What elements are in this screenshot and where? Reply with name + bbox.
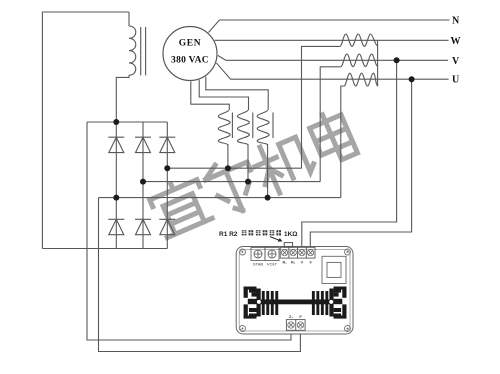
inductor L1 core bbox=[231, 113, 233, 139]
wire transformer top lead bbox=[128, 12, 130, 26]
svg-text:R1 R2: R1 R2 bbox=[219, 231, 238, 238]
diode D4 bbox=[108, 219, 124, 234]
wire gen to N bbox=[209, 20, 450, 33]
wire V sense drop bbox=[302, 60, 397, 247]
node J5 L2 bottom bbox=[245, 179, 251, 185]
svg-text:W: W bbox=[451, 36, 461, 47]
node J2 tap phase rail1 bbox=[164, 165, 170, 171]
wire DC negative to F2 bbox=[99, 198, 301, 352]
inductor L3 bbox=[257, 110, 269, 145]
choke LV on line V bbox=[341, 54, 378, 67]
diode D2 bbox=[135, 137, 151, 152]
heatsink left bbox=[244, 287, 279, 319]
svg-text:R₁: R₁ bbox=[282, 261, 287, 265]
relay box bbox=[322, 256, 346, 283]
bottom terminal block F bbox=[286, 320, 305, 331]
wire rail2 bbox=[143, 181, 320, 183]
wire gen bottom to L3 bbox=[206, 77, 268, 110]
watermark 宜 bbox=[147, 174, 213, 238]
choke LW on line W bbox=[340, 34, 378, 46]
module inner border bbox=[239, 250, 350, 332]
watermark 电 bbox=[307, 108, 358, 166]
node J3 L1 bottom bbox=[225, 165, 231, 171]
wire L1 to rail1 bbox=[227, 144, 229, 168]
wire transformer bottom lead bbox=[116, 75, 129, 122]
wire U sense drop bbox=[310, 79, 411, 247]
heatsink screw holes bbox=[257, 300, 261, 304]
svg-text:STAB: STAB bbox=[253, 262, 263, 267]
node J8 V line tap bbox=[394, 57, 400, 63]
trimmer VOLT bbox=[265, 248, 279, 261]
wire gen to U bbox=[216, 63, 448, 79]
transformer T1 core bbox=[141, 27, 146, 75]
annotation CJK blobs bbox=[242, 230, 281, 235]
wire gen to W bbox=[215, 39, 449, 41]
wire gen to V bbox=[218, 56, 448, 61]
svg-text:GEN: GEN bbox=[179, 39, 201, 49]
svg-text:0: 0 bbox=[309, 261, 311, 265]
diode D1 bbox=[108, 137, 124, 152]
inductor L2 core bbox=[252, 113, 254, 139]
wire LV left tail bbox=[320, 67, 341, 182]
node J4 tap phase rail2 bbox=[140, 179, 146, 185]
wire rail1 bbox=[167, 167, 301, 169]
svg-text:380 VAC: 380 VAC bbox=[171, 56, 209, 66]
wire LW left tail bbox=[302, 46, 340, 168]
wire LU left tail bbox=[341, 86, 344, 198]
heatsink right bbox=[312, 287, 347, 319]
wire bridge column 1 bbox=[115, 122, 117, 249]
trimmer STAB bbox=[251, 248, 265, 261]
wire L3 to rail3 bbox=[267, 144, 269, 198]
svg-text:V: V bbox=[301, 261, 304, 265]
pot bracket box over R1 R2 bbox=[284, 243, 292, 247]
node J6 tap phase rail3 bbox=[113, 195, 119, 201]
wire bridge bottom rail bbox=[42, 248, 167, 250]
wire choke common vertical bbox=[377, 40, 379, 86]
module screw top-left bbox=[240, 249, 246, 255]
transformer T1 primary coil bbox=[129, 26, 136, 75]
svg-text:U: U bbox=[452, 75, 459, 86]
wire bridge column 2 bbox=[142, 122, 144, 249]
watermark 乐 bbox=[202, 153, 264, 219]
AVR module body bbox=[236, 247, 353, 335]
wire bridge top rail bbox=[87, 121, 167, 123]
wire L2 to rail2 bbox=[247, 144, 249, 182]
terminal block R1 R2 V 0 bbox=[280, 247, 315, 258]
inductor L1 bbox=[218, 110, 230, 145]
heatsink bar bbox=[257, 300, 334, 305]
svg-text:V: V bbox=[452, 56, 460, 67]
annotation arrow bbox=[270, 237, 280, 241]
wire gen bottom to L2 bbox=[199, 80, 248, 110]
node J9 U line tap bbox=[409, 76, 415, 82]
generator G1 circle bbox=[163, 27, 217, 81]
svg-text:R₂: R₂ bbox=[291, 261, 296, 265]
wire DC positive to F1 bbox=[87, 122, 291, 340]
svg-text:N: N bbox=[452, 16, 460, 27]
watermark 机 bbox=[249, 130, 319, 198]
choke LU on line U bbox=[344, 73, 378, 86]
wire bridge column 3 bbox=[166, 122, 168, 249]
node J7 L3 bottom bbox=[265, 195, 271, 201]
svg-text:Z₁: Z₁ bbox=[289, 315, 293, 319]
module screw top-right bbox=[345, 249, 351, 255]
wire gen bottom to L1 bbox=[191, 81, 230, 110]
diode D3 bbox=[159, 137, 175, 152]
module screw bottom-right bbox=[345, 326, 351, 332]
module screw bottom-left bbox=[240, 326, 246, 332]
node J1 transformer/top rail bbox=[113, 119, 119, 125]
inductor L2 bbox=[238, 110, 250, 145]
left loop rectangle wire bbox=[42, 12, 129, 249]
inductor L3 core bbox=[272, 113, 274, 139]
svg-text:VOLT: VOLT bbox=[267, 262, 278, 267]
svg-text:1KΩ: 1KΩ bbox=[284, 231, 298, 238]
wire rail3 bbox=[99, 197, 341, 199]
diode D6 bbox=[159, 219, 175, 234]
diode D5 bbox=[135, 219, 151, 234]
